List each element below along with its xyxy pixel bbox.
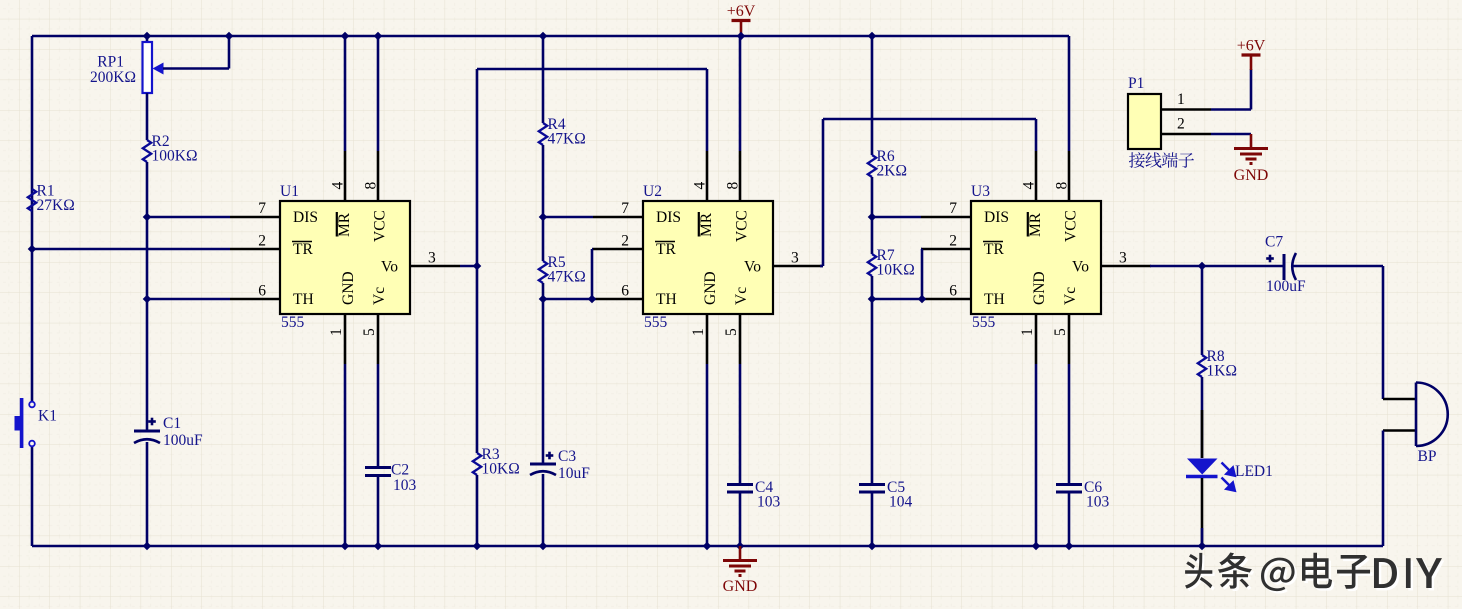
resistor R3 [473,453,481,475]
svg-text:103: 103 [757,494,781,511]
junction R4 rail [539,32,548,41]
op-amp/timer U3 body [971,201,1101,314]
U2 pin 8 stub (VCC) [739,151,742,201]
wire U2 pin5 to C4 [739,364,742,485]
svg-text:5: 5 [361,328,378,336]
U1 pin 8 stub (VCC) [377,151,380,201]
U2 pin 5 stub (Vc) [739,314,742,364]
svg-text:2: 2 [621,233,629,250]
junction U1 pin8 rail [374,32,383,41]
junction U1 output node [473,262,482,271]
junction C6-rail [1065,542,1074,551]
U3 pin 8 stub (VCC) [1068,151,1071,201]
svg-text:U2: U2 [643,183,662,200]
svg-text:Vc: Vc [1062,287,1079,305]
svg-text:GND: GND [340,271,357,305]
resistor R7 [868,254,876,276]
junction C4-rail GND node [736,542,745,551]
svg-text:GND: GND [702,271,719,305]
resistor R8 [1198,355,1206,377]
svg-text:Vc: Vc [733,287,750,305]
wire R7 to C5 [871,276,874,485]
svg-text:2KΩ: 2KΩ [877,163,907,180]
wire C3 to bottom rail [542,474,545,546]
wire node to C7 [1202,265,1284,268]
svg-text:C3: C3 [558,448,576,465]
capacitor C2 [365,466,391,469]
U3 pin 1 stub (GND) [1035,314,1038,364]
label C1 plus [148,420,156,423]
svg-text:103: 103 [1086,494,1110,511]
resistor R2 [143,140,151,162]
svg-text:7: 7 [621,200,629,217]
wire U2 pin1 to bottom rail [706,364,709,546]
U3 pin 7 stub (DIS) [921,216,971,219]
svg-text:TR: TR [984,241,1004,258]
svg-text:MR: MR [698,212,715,237]
svg-text:+6V: +6V [1237,38,1266,55]
wire R8 to LED1 [1201,377,1204,458]
svg-text:3: 3 [1119,250,1127,267]
wire U3 pin1 to bottom rail [1035,364,1038,546]
capacitor C3 [530,463,556,466]
svg-text:+6V: +6V [727,3,756,20]
junction U1 pin4 rail [341,32,350,41]
svg-text:555: 555 [972,314,996,331]
U1 pin 3 stub (Vo) [410,265,460,268]
connector P1 body [1128,94,1161,149]
junction LED1-rail [1198,542,1207,551]
svg-text:VCC: VCC [372,210,389,242]
wire U1 pin8 to top rail [377,36,380,151]
svg-text:C1: C1 [163,415,181,432]
U2 pin 3 stub (Vo) [773,265,823,268]
capacitor C6 [1056,483,1082,486]
junction U3 TH node [868,295,877,304]
ground symbol P1 [1250,134,1253,148]
junction C3-rail [539,542,548,551]
junction U2 pin1 rail [703,542,712,551]
svg-text:2: 2 [949,233,957,250]
speaker BP pin 2 [1383,429,1416,432]
wire RP1 wiper [163,67,229,70]
svg-text:5: 5 [723,328,740,336]
wire C7 to BP [1293,265,1383,268]
svg-text:DIS: DIS [656,209,681,226]
wire U3 pin5 to C6 [1068,364,1071,485]
svg-text:1: 1 [1019,328,1036,336]
resistor R5 [539,261,547,283]
potentiometer RP1 [143,42,153,93]
wire C4 to bottom rail [739,492,742,546]
svg-text:BP: BP [1418,448,1437,465]
svg-text:6: 6 [949,283,957,300]
wire U1 pin4 to top rail [344,36,347,151]
svg-text:1: 1 [328,328,345,336]
svg-text:TR: TR [656,241,676,258]
wire U1 DIS to node [147,216,230,219]
wire P1 pin2 to ground [1211,133,1251,136]
U1 pin 5 stub (Vc) [377,314,380,364]
svg-text:P1: P1 [1128,75,1144,92]
junction C5-rail [868,542,877,551]
speaker BP pin 1 [1383,398,1416,401]
svg-text:K1: K1 [38,408,57,425]
wire C1 to bottom rail [146,442,149,546]
svg-text:27KΩ: 27KΩ [37,197,75,214]
U3 pin 5 stub (Vc) [1068,314,1071,364]
wire output node down to R3 [476,266,479,453]
label 接线端子 (connector name) [1129,152,1194,168]
wire top +6V rail [32,35,1069,38]
wire U2 Vo to link [820,265,823,268]
wire R4 to R5 [542,145,545,261]
U3 pin 3 stub (Vo) [1101,265,1151,268]
wire rail to R6 [871,36,874,155]
resistor R1 [28,189,36,211]
wire LED1 to bottom rail [1201,478,1204,546]
op-amp/timer U1 body [280,201,410,314]
svg-text:100uF: 100uF [1266,278,1306,295]
wire RP1 top stub [146,36,149,42]
svg-text:Vo: Vo [744,259,761,276]
wire rail to R4 [542,36,545,123]
svg-text:Vo: Vo [381,259,398,276]
wire U2 TR jog [592,248,593,251]
wire U2 output up-over to U3 MR [822,119,825,266]
junction C2-rail [374,542,383,551]
wire bottom ground rail [32,545,1383,548]
label C3 plus [546,454,554,457]
U1 pin 4 stub (MR) [344,151,347,201]
speaker BP body [1415,383,1418,447]
svg-text:7: 7 [258,200,266,217]
wire U1 pin1 to bottom rail [344,364,347,546]
wire U1 output up-over to U2 MR [476,69,479,266]
junction +6V rail [737,32,746,41]
svg-text:2: 2 [1177,116,1185,133]
svg-text:VCC: VCC [1063,210,1080,242]
wire left rail upper [31,36,34,402]
U2 pin 4 stub (MR) [706,151,709,201]
wire R5 to C3 [542,283,545,464]
svg-text:555: 555 [281,314,305,331]
svg-text:8: 8 [363,182,380,190]
wire U3 DIS from node [872,216,921,219]
svg-text:DIS: DIS [293,209,318,226]
resistor R4 [539,123,547,145]
junction U2 TR-TH [588,295,597,304]
U3 pin 2 stub (TR) [921,248,971,251]
wire U1 TR to left rail [32,248,230,251]
svg-text:C7: C7 [1265,234,1283,251]
U2 pin 2 stub (TR) [593,248,643,251]
svg-text:3: 3 [791,250,799,267]
svg-text:TH: TH [656,291,677,308]
junction C1-rail [143,542,152,551]
svg-text:MR: MR [336,212,353,237]
junction U3 TR-TH [918,295,927,304]
svg-text:5: 5 [1052,328,1069,336]
capacitor C7 [1283,254,1286,280]
capacitor C5 [859,483,885,486]
P1 pin 1 stub [1161,108,1211,111]
wire C2 to bottom rail [377,476,380,547]
svg-text:GND: GND [1031,271,1048,305]
U1 pin 1 stub (GND) [344,314,347,364]
U2 pin 6 stub (TH) [593,298,643,301]
U3 pin 6 stub (TH) [921,298,971,301]
op-amp/timer U2 body [643,201,773,314]
U1 pin 6 stub (TH) [230,298,280,301]
label C7 plus [1266,257,1274,260]
svg-text:100KΩ: 100KΩ [152,148,198,165]
svg-text:10uF: 10uF [558,465,590,482]
U1 pin 2 stub (TR) [230,248,280,251]
wire U2 pin8 to top rail [739,36,742,151]
svg-text:8: 8 [725,182,742,190]
wire U3 Vo to R8 node [1150,265,1202,268]
junction TR branch [28,245,37,254]
svg-text:6: 6 [258,283,266,300]
svg-text:MR: MR [1027,212,1044,237]
svg-text:1: 1 [1177,91,1185,108]
svg-text:10KΩ: 10KΩ [482,461,520,478]
svg-text:100uF: 100uF [163,432,203,449]
svg-text:U1: U1 [280,183,299,200]
svg-text:1KΩ: 1KΩ [1207,363,1237,380]
svg-text:4: 4 [330,182,347,190]
junction R8 node [1198,262,1207,271]
capacitor C1 [134,430,160,433]
U3 pin 4 stub (MR) [1035,151,1038,201]
wire U2 TH from node [543,298,593,301]
wire R6 to R7 [871,177,874,254]
capacitor C4 [727,483,753,486]
svg-text:1: 1 [690,328,707,336]
wire R3 to bottom rail [476,475,479,546]
svg-text:555: 555 [644,314,668,331]
svg-text:200KΩ: 200KΩ [90,69,136,86]
svg-text:C2: C2 [391,462,409,479]
junction U2 DIS node [539,213,548,222]
svg-text:TH: TH [984,291,1005,308]
wire U1 pin5 to C2 [377,364,380,468]
junction wiper-rail [225,32,234,41]
ground symbol bottom [739,546,742,560]
U1 pin 7 stub (DIS) [230,216,280,219]
svg-text:104: 104 [889,494,913,511]
svg-text:47KΩ: 47KΩ [548,131,586,148]
svg-text:U3: U3 [971,183,990,200]
svg-text:Vo: Vo [1072,259,1089,276]
junction TH node [143,295,152,304]
svg-text:103: 103 [393,477,417,494]
svg-text:4: 4 [1021,182,1038,190]
svg-text:3: 3 [428,250,436,267]
svg-text:LED1: LED1 [1235,463,1273,480]
wire BP to bottom rail [1382,431,1385,547]
wire node to R8 [1201,266,1204,355]
svg-text:8: 8 [1054,182,1071,190]
svg-text:Vc: Vc [371,287,388,305]
svg-text:RP1: RP1 [97,54,124,71]
wire U1 Vo to link node [460,265,477,268]
wire RP1 to R2 [146,93,149,140]
U2 pin 1 stub (GND) [706,314,709,364]
svg-text:6: 6 [621,283,629,300]
svg-text:GND: GND [723,578,758,595]
junction U1 pin1 rail [341,542,350,551]
wire left rail lower [31,446,34,546]
svg-text:VCC: VCC [734,210,751,242]
junction DIS node [143,213,152,222]
U2 pin 7 stub (DIS) [593,216,643,219]
svg-text:TH: TH [293,291,314,308]
svg-text:7: 7 [949,200,957,217]
svg-text:47KΩ: 47KΩ [548,269,586,286]
wire R2 to C1 (node DIS/TH column) [146,162,149,431]
junction U2 TH node [539,295,548,304]
junction RP1 top [143,32,152,41]
svg-text:2: 2 [258,233,266,250]
wire C6 to bottom rail [1068,492,1071,546]
P1 pin 2 stub [1161,133,1211,136]
junction R3-rail [473,542,482,551]
junction R6 rail [868,32,877,41]
wire U3 TR jog [921,248,922,251]
watermark 头条@电子DIY [1187,555,1444,594]
wire U3 pin8 to top rail corner [1068,36,1071,151]
wire C5 to bottom rail [871,492,874,546]
diode LED1 [1187,459,1218,475]
svg-text:TR: TR [293,241,313,258]
wire U1 TH to node [147,298,230,301]
wire P1 pin1 to +6V [1211,108,1251,111]
svg-text:4: 4 [692,182,709,190]
svg-text:GND: GND [1234,167,1269,184]
junction U3 DIS node [868,213,877,222]
resistor R6 [868,155,876,177]
wire U3 TH from node [872,298,921,301]
svg-text:10KΩ: 10KΩ [877,262,915,279]
junction U3 pin1 rail [1032,542,1041,551]
switch K1 [29,402,35,408]
wire U2 DIS from node [543,216,593,219]
svg-text:DIS: DIS [984,209,1009,226]
